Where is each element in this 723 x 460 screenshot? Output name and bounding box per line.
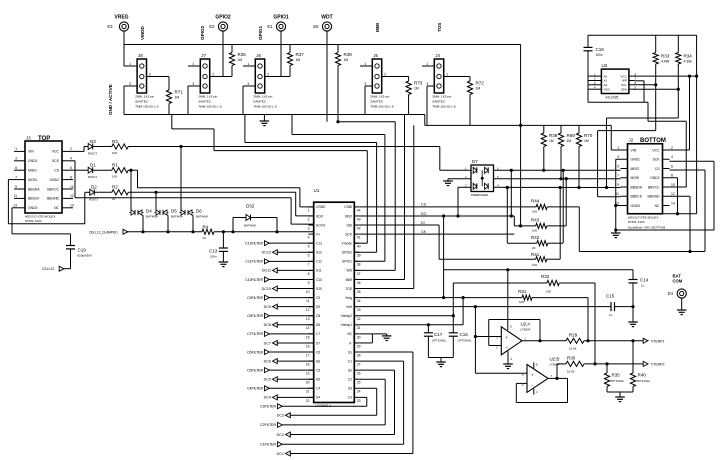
svg-text:C6: C6 <box>316 350 320 354</box>
wire R31 output <box>532 297 588 299</box>
svg-text:100: 100 <box>532 229 537 233</box>
svg-text:E4: E4 <box>668 291 674 296</box>
ground under J2 <box>614 228 617 231</box>
svg-text:TMM-103-02-L-S: TMM-103-02-L-S <box>198 105 222 109</box>
svg-text:+: + <box>531 372 534 377</box>
diode D6 <box>181 210 185 215</box>
wire J3 MOSI loop to D2 <box>8 179 14 181</box>
resistor R33 <box>655 35 657 52</box>
svg-text:VREG: VREG <box>114 15 128 21</box>
svg-text:C13: C13 <box>209 249 218 254</box>
resistor R41 <box>536 257 547 262</box>
svg-text:OPTIONAL: OPTIONAL <box>636 379 651 383</box>
wire J2 BBGND down <box>670 195 691 197</box>
wire J8 pin3 to bus <box>124 85 137 87</box>
svg-text:SDI: SDI <box>347 223 353 227</box>
svg-text:C2FILTER: C2FILTER <box>260 423 276 427</box>
svg-text:20: 20 <box>532 246 536 250</box>
svg-text:E2: E2 <box>209 24 215 29</box>
wire J2 ground loop bottom <box>616 229 714 231</box>
svg-text:S6: S6 <box>316 359 320 363</box>
wire D4 up to R1 line <box>130 170 132 210</box>
svg-text:TMM-103-02-L-S: TMM-103-02-L-S <box>253 105 277 109</box>
wire U2-A +input <box>475 336 501 338</box>
svg-text:GND3: GND3 <box>28 206 38 210</box>
diode D4 <box>131 210 135 215</box>
svg-text:DC11: DC11 <box>262 269 271 273</box>
svg-text:GND2: GND2 <box>650 176 660 180</box>
wire D7 pin6 MISO row <box>494 169 621 171</box>
svg-text:C12: C12 <box>316 241 322 245</box>
svg-text:C1FILTER: C1FILTER <box>260 443 276 447</box>
svg-text:1M: 1M <box>344 58 349 62</box>
svg-text:TMM-103-02-L-S: TMM-103-02-L-S <box>432 105 456 109</box>
svg-text:SDO: SDO <box>316 214 324 218</box>
wire MMI net vertical <box>404 115 406 280</box>
svg-text:C3: C3 <box>348 396 352 400</box>
svg-text:C6FILTER: C6FILTER <box>247 350 263 354</box>
svg-text:9: 9 <box>617 183 619 187</box>
svg-text:3: 3 <box>247 82 249 86</box>
svg-text:C4FILTER: C4FILTER <box>247 387 263 391</box>
svg-text:R41: R41 <box>531 252 540 257</box>
svg-text:3: 3 <box>15 157 17 161</box>
svg-text:1: 1 <box>426 62 428 66</box>
svg-text:1: 1 <box>617 146 619 150</box>
wire C1FILTER to U1 <box>282 443 404 445</box>
svg-text:GND / ACTIVE: GND / ACTIVE <box>108 84 113 115</box>
wire J2 VIN to bus3 <box>611 149 620 151</box>
wire U3 WP stub <box>634 80 644 82</box>
wire J6 pin2 to R37 <box>265 76 290 78</box>
wire top rail of EEPROM block <box>588 34 697 36</box>
capacitor C17 <box>427 325 429 333</box>
svg-text:C7FILTER: C7FILTER <box>247 332 263 336</box>
svg-text:DO: DO <box>421 212 427 216</box>
svg-text:TOS: TOS <box>437 23 442 32</box>
svg-text:3: 3 <box>617 155 619 159</box>
ground under C13 <box>219 261 229 263</box>
wire D6 down to clamp line <box>192 215 194 232</box>
svg-text:17: 17 <box>306 353 310 357</box>
svg-text:VIN: VIN <box>28 150 34 154</box>
svg-text:VSS: VSS <box>604 87 610 91</box>
svg-text:21: 21 <box>306 390 310 394</box>
svg-text:LT6004: LT6004 <box>521 328 531 332</box>
wire J4 pin2 to R72 <box>444 76 470 78</box>
wire E2 down to J7 pin2 net <box>222 31 224 76</box>
svg-text:HEX217-STE-MOLEX: HEX217-STE-MOLEX <box>25 215 55 219</box>
svg-text:BAT46W: BAT46W <box>244 224 256 228</box>
svg-text:BBGND: BBGND <box>47 197 60 201</box>
wire C16/C17 ground bus <box>428 357 453 359</box>
wire D4 down to clamp line <box>142 215 144 232</box>
wire DC1 to U1 <box>290 453 413 455</box>
wire R35/R40 bottoms <box>607 391 633 393</box>
resistor R70 <box>578 125 580 133</box>
resistor R72 <box>469 77 471 82</box>
svg-text:DC8: DC8 <box>264 323 271 327</box>
svg-text:D6: D6 <box>196 209 202 214</box>
svg-text:J7: J7 <box>201 53 206 58</box>
svg-text:12: 12 <box>70 194 74 198</box>
svg-text:GPIO1: GPIO1 <box>342 260 352 264</box>
svg-text:10.0k: 10.0k <box>567 369 575 373</box>
svg-text:VCC: VCC <box>621 74 628 78</box>
wire CK row <box>359 233 514 235</box>
svg-text:10: 10 <box>671 183 675 187</box>
svg-text:C16: C16 <box>460 332 469 337</box>
svg-text:DC6: DC6 <box>264 359 271 363</box>
svg-text:R1: R1 <box>112 163 118 168</box>
wire J4 pin1 <box>422 65 434 67</box>
wire U2-B +input <box>475 372 527 374</box>
svg-text:S12: S12 <box>316 251 322 255</box>
svg-text:R3: R3 <box>112 139 118 144</box>
svg-text:NC: NC <box>54 206 59 210</box>
resistor R29 <box>540 340 566 342</box>
wire J2 BBVCC up <box>670 186 687 188</box>
svg-text:R34: R34 <box>684 54 693 59</box>
svg-text:2: 2 <box>671 146 673 150</box>
svg-text:12: 12 <box>671 192 675 196</box>
svg-text:QuickEval / SPI / BOTTOM: QuickEval / SPI / BOTTOM <box>628 226 666 230</box>
svg-text:RS07J: RS07J <box>88 175 98 179</box>
svg-text:100n: 100n <box>210 255 217 259</box>
wire J6 pin1 <box>243 65 255 67</box>
svg-text:6: 6 <box>671 164 673 168</box>
svg-text:BBSDA: BBSDA <box>631 185 643 189</box>
wire R29 to VTEMP1 out <box>584 340 643 342</box>
svg-text:4: 4 <box>308 236 310 240</box>
wire U1 pin37 stub to WD vertical <box>354 269 395 271</box>
svg-text:C19: C19 <box>78 248 87 253</box>
svg-text:GPIO1: GPIO1 <box>273 15 289 21</box>
svg-text:GPIO1: GPIO1 <box>258 26 263 40</box>
svg-text:D2: D2 <box>91 185 97 190</box>
svg-text:2MM, 1X3 pin: 2MM, 1X3 pin <box>370 95 389 99</box>
svg-text:CSBO: CSBO <box>316 205 326 209</box>
svg-text:87331-1420: 87331-1420 <box>25 219 42 223</box>
svg-text:6: 6 <box>308 254 310 258</box>
svg-text:GND3: GND3 <box>631 204 641 208</box>
wire U1 pin39 stub to GPIO2 vertical <box>354 251 376 253</box>
wire TOS net vertical <box>413 125 415 288</box>
resistor R2 <box>94 191 112 193</box>
svg-text:C18: C18 <box>596 47 605 52</box>
svg-text:BBSCK: BBSCK <box>631 195 643 199</box>
resistor R69 <box>560 125 562 133</box>
resistor R35 <box>606 364 608 373</box>
svg-text:100: 100 <box>532 210 537 214</box>
wire E1 down to J6 pin2 net <box>280 31 282 76</box>
svg-text:R40: R40 <box>638 373 647 378</box>
svg-text:32: 32 <box>357 317 361 321</box>
svg-text:23: 23 <box>357 399 361 403</box>
resistor R42 <box>537 241 548 246</box>
svg-text:GND1: GND1 <box>631 158 641 162</box>
capacitor C14 <box>632 270 634 280</box>
svg-text:BAT46W: BAT46W <box>196 215 208 219</box>
svg-text:DC9: DC9 <box>264 305 271 309</box>
svg-text:2MM, 1X3 pin: 2MM, 1X3 pin <box>253 95 272 99</box>
wire J8 pin2 to R71 <box>147 76 170 78</box>
svg-text:30: 30 <box>357 335 361 339</box>
vertical continues to R43 feed <box>520 125 522 225</box>
wire op-amp + feed vertical from VREF <box>474 307 476 374</box>
wire J2 VCC up to EEPROM VCC <box>670 149 690 151</box>
svg-text:36: 36 <box>357 281 361 285</box>
wire C3FILTER to U1 <box>282 405 367 407</box>
svg-text:SCK: SCK <box>653 158 661 162</box>
wire GPIO2 net stepped <box>244 115 246 143</box>
resistor R30 <box>556 364 558 379</box>
svg-text:SDO: SDO <box>345 214 353 218</box>
wire J2 GND2 loop <box>670 177 678 179</box>
wire R43 to MOSI row <box>547 225 566 227</box>
svg-text:DC12: DC12 <box>262 251 271 255</box>
bus jog down <box>424 115 426 126</box>
svg-text:7: 7 <box>15 175 17 179</box>
svg-text:2MM, 1X3 pin: 2MM, 1X3 pin <box>432 95 451 99</box>
wire R31 drop to VTEMP1 row <box>462 298 464 325</box>
wire U1 pin36 stub to MMI vertical <box>354 279 404 281</box>
svg-text:TMM-103-02-L-S: TMM-103-02-L-S <box>135 105 159 109</box>
svg-text:DC7: DC7 <box>264 341 271 345</box>
svg-text:E1: E1 <box>267 24 273 29</box>
svg-text:R29: R29 <box>569 332 578 337</box>
wire R42 to MISO row <box>548 242 563 244</box>
svg-text:DC4: DC4 <box>264 396 271 400</box>
wire E5 down to WD net <box>326 31 328 122</box>
resistor R3 <box>93 146 112 148</box>
wire VTEMP1 row <box>359 324 463 326</box>
wire J3 GND3 to C19 <box>12 207 14 209</box>
svg-text:CSBI: CSBI <box>344 205 352 209</box>
svg-text:S4: S4 <box>316 396 320 400</box>
wire VREG row to R31 <box>359 297 522 299</box>
svg-text:A2: A2 <box>604 83 608 87</box>
wire R3 net down to D7 pin1 <box>439 147 441 171</box>
svg-text:TOS: TOS <box>345 287 353 291</box>
svg-text:SDA: SDA <box>621 87 627 91</box>
svg-text:BBSDA: BBSDA <box>28 187 40 191</box>
svg-text:DC10: DC10 <box>262 287 271 291</box>
svg-text:VTEMP1: VTEMP1 <box>651 339 665 343</box>
svg-text:C10FILTER: C10FILTER <box>245 278 263 282</box>
wire U1 NC/V- to ground <box>359 333 387 335</box>
svg-text:R2: R2 <box>112 185 118 190</box>
svg-text:7: 7 <box>617 174 619 178</box>
svg-text:2: 2 <box>267 73 269 77</box>
svg-text:PREBIASED: PREBIASED <box>471 193 489 197</box>
svg-text:C2: C2 <box>348 378 352 382</box>
svg-text:R4: R4 <box>203 224 209 229</box>
svg-text:J2: J2 <box>629 138 634 143</box>
svg-text:VTEMP2: VTEMP2 <box>651 362 665 366</box>
U2-A power pins <box>507 270 509 330</box>
ground for U1 V- <box>386 334 388 336</box>
svg-text:U3: U3 <box>602 63 608 68</box>
wire J3 CS to D1 <box>73 169 88 171</box>
svg-text:1u: 1u <box>641 284 645 288</box>
ground under C14 <box>628 321 638 323</box>
wire J4 pin3 to bus <box>427 85 434 87</box>
wire R42 feed vertical <box>506 188 508 244</box>
top rail wire <box>124 44 521 46</box>
svg-text:NC: NC <box>347 332 352 336</box>
svg-text:VCC: VCC <box>652 148 660 152</box>
svg-text:14: 14 <box>306 326 310 330</box>
wire R1 to U1 CSBO <box>128 169 137 171</box>
resistor R73 <box>408 77 410 82</box>
svg-text:R72: R72 <box>476 81 485 86</box>
capacitor C16 <box>452 316 454 333</box>
svg-text:S5: S5 <box>316 378 320 382</box>
svg-text:CS: CS <box>54 169 59 173</box>
svg-text:C5FILTER: C5FILTER <box>247 368 263 372</box>
resistor R4 <box>202 229 214 234</box>
capacitor C15 <box>610 302 612 311</box>
svg-text:2MM, 1X3 pin: 2MM, 1X3 pin <box>198 95 217 99</box>
svg-text:18: 18 <box>306 362 310 366</box>
svg-text:R31: R31 <box>518 289 527 294</box>
svg-text:SAMTEC: SAMTEC <box>432 100 446 104</box>
svg-text:29: 29 <box>357 344 361 348</box>
svg-text:SAMTEC: SAMTEC <box>198 100 212 104</box>
wire E4 to ground <box>681 298 683 310</box>
svg-text:10: 10 <box>306 290 310 294</box>
wire DO row <box>359 215 514 217</box>
wire J5 pin3 to bus <box>365 85 372 87</box>
wire U2-B feedback loop <box>548 377 568 379</box>
wire U1 pin35 stub to TOS vertical <box>354 288 414 290</box>
svg-text:D7: D7 <box>472 159 478 164</box>
svg-text:C14: C14 <box>640 278 649 283</box>
svg-text:Vreg: Vreg <box>345 296 352 300</box>
svg-text:820p/630V: 820p/630V <box>78 254 93 258</box>
svg-text:8: 8 <box>308 272 310 276</box>
svg-text:C9: C9 <box>316 296 320 300</box>
svg-text:2: 2 <box>212 73 214 77</box>
resistor R36 <box>231 45 233 53</box>
ground under R35/R40 <box>615 396 625 398</box>
svg-text:4.99k: 4.99k <box>661 60 670 64</box>
wire J7 pin3 to bus <box>188 85 200 87</box>
resistor R31 <box>522 295 532 300</box>
svg-text:GPIO2: GPIO2 <box>215 15 231 21</box>
svg-text:U2:B: U2:B <box>550 357 560 362</box>
svg-text:S9: S9 <box>316 305 320 309</box>
wire J7 pin2 to R36 <box>210 76 232 78</box>
svg-text:S3: S3 <box>348 387 352 391</box>
svg-text:1: 1 <box>247 62 249 66</box>
svg-text:9: 9 <box>308 281 310 285</box>
svg-text:CS: CS <box>421 203 427 207</box>
svg-text:WDT: WDT <box>321 15 332 21</box>
svg-text:R43: R43 <box>531 218 540 223</box>
svg-text:NC: NC <box>655 204 660 208</box>
svg-text:1u: 1u <box>609 313 613 317</box>
svg-text:Vtemp2: Vtemp2 <box>341 314 353 318</box>
svg-text:3: 3 <box>308 226 310 230</box>
svg-text:100: 100 <box>112 151 117 155</box>
wire J6 pin3 to bus <box>243 85 255 87</box>
capacitor C13 <box>222 232 224 248</box>
svg-text:33: 33 <box>357 308 361 312</box>
wire R32 row <box>453 282 547 284</box>
wire R3 output long <box>128 146 440 148</box>
svg-text:2MM, 1X3 pin: 2MM, 1X3 pin <box>135 95 154 99</box>
svg-text:C8: C8 <box>316 314 320 318</box>
svg-text:24: 24 <box>357 390 361 394</box>
wire MISO drop to DO row <box>510 170 512 216</box>
svg-text:D5: D5 <box>171 209 177 214</box>
svg-text:1: 1 <box>129 62 131 66</box>
node CELL12 <box>64 268 71 270</box>
svg-text:VCC: VCC <box>52 150 60 154</box>
svg-text:R44: R44 <box>531 199 540 204</box>
svg-text:SAMTEC: SAMTEC <box>253 100 267 104</box>
resistor R34 <box>677 35 679 52</box>
svg-text:10.0k: 10.0k <box>569 346 577 350</box>
svg-text:CELL12_CLAMPED: CELL12_CLAMPED <box>89 230 118 234</box>
svg-text:2: 2 <box>308 217 310 221</box>
svg-text:38: 38 <box>357 263 361 267</box>
svg-text:WD: WD <box>347 269 353 273</box>
wire J8 pin1 <box>124 65 137 67</box>
svg-text:3: 3 <box>129 82 131 86</box>
svg-text:D32: D32 <box>246 204 255 209</box>
svg-text:R37: R37 <box>296 52 305 57</box>
wire D5 up to R2 line <box>155 192 157 210</box>
wire D7 pin5 MOSI row <box>494 178 621 180</box>
ground at D7 <box>443 180 453 182</box>
svg-text:S7: S7 <box>316 341 320 345</box>
svg-text:J8: J8 <box>138 53 143 58</box>
svg-text:SAMTEC: SAMTEC <box>370 100 384 104</box>
resistor R43 <box>536 223 547 228</box>
svg-text:RS07J: RS07J <box>88 152 98 156</box>
svg-text:20: 20 <box>306 381 310 385</box>
svg-text:GPIO2: GPIO2 <box>200 26 205 40</box>
svg-text:1: 1 <box>15 147 17 151</box>
svg-text:87331-1420: 87331-1420 <box>628 220 645 224</box>
wire J5 pin2 to R73 <box>382 76 409 78</box>
svg-text:S11: S11 <box>316 269 322 273</box>
svg-text:44: 44 <box>357 208 361 212</box>
svg-text:5: 5 <box>617 164 619 168</box>
svg-text:15: 15 <box>306 335 310 339</box>
svg-text:2: 2 <box>384 73 386 77</box>
svg-text:DI: DI <box>421 221 425 225</box>
svg-text:C1: C1 <box>348 359 352 363</box>
svg-text:2: 2 <box>70 147 72 151</box>
svg-text:E5: E5 <box>313 24 319 29</box>
wire U3 VCC to top rail <box>634 75 697 77</box>
svg-text:R42: R42 <box>531 235 540 240</box>
svg-text:8: 8 <box>671 174 673 178</box>
svg-text:25: 25 <box>357 381 361 385</box>
wire J2 GND1-GND3 tie <box>616 158 621 160</box>
svg-text:22: 22 <box>306 399 310 403</box>
svg-text:BBVCC: BBVCC <box>648 185 660 189</box>
wire isolated supply filter line <box>444 269 633 271</box>
svg-text:S8: S8 <box>316 323 320 327</box>
svg-text:1M: 1M <box>584 139 589 143</box>
svg-text:1M: 1M <box>476 87 481 91</box>
svg-text:DC5: DC5 <box>264 378 271 382</box>
